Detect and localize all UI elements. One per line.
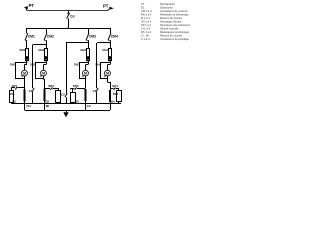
- svg-text:C2: C2: [87, 104, 91, 108]
- svg-text:M: M: [23, 71, 26, 75]
- svg-text:RS1: RS1: [9, 92, 15, 96]
- svg-text:CI - MI: CI - MI: [141, 34, 149, 38]
- svg-text:MI: MI: [46, 104, 49, 108]
- svg-text:SH4: SH4: [95, 63, 101, 67]
- svg-text:SI 1 à 4: SI 1 à 4: [141, 27, 150, 31]
- svg-text:RH3: RH3: [81, 48, 87, 52]
- svg-text:Pantographe: Pantographe: [160, 2, 175, 6]
- svg-text:SP2: SP2: [48, 84, 54, 88]
- svg-text:CI1: CI1: [26, 104, 31, 108]
- svg-text:Disjoncteur: Disjoncteur: [160, 6, 173, 10]
- svg-text:SH2: SH2: [30, 63, 36, 67]
- svg-text:SH 1 à 4: SH 1 à 4: [141, 20, 152, 24]
- svg-text:DJ: DJ: [70, 14, 74, 18]
- svg-text:SP 1 à 4: SP 1 à 4: [141, 23, 151, 27]
- svg-text:Shuntages d'induit: Shuntages d'induit: [160, 20, 182, 24]
- svg-text:RH1: RH1: [20, 48, 26, 52]
- svg-text:PT: PT: [141, 2, 145, 6]
- svg-text:RH 1 à 4: RH 1 à 4: [141, 13, 152, 17]
- svg-text:CM1: CM1: [28, 34, 35, 38]
- svg-text:RH2: RH2: [39, 48, 45, 52]
- svg-text:Contacteurs de couplage: Contacteurs de couplage: [160, 37, 189, 41]
- svg-text:RS 1 à 4: RS 1 à 4: [141, 30, 152, 34]
- svg-text:Moteurs de traction: Moteurs de traction: [160, 16, 183, 20]
- svg-text:CM4: CM4: [111, 34, 118, 38]
- svg-text:CM2: CM2: [47, 34, 54, 38]
- svg-text:RS4: RS4: [113, 92, 119, 96]
- svg-text:Résistances de shuntage: Résistances de shuntage: [160, 30, 190, 34]
- svg-text:SH1: SH1: [10, 63, 16, 67]
- svg-text:Rhéostats de démarrage: Rhéostats de démarrage: [160, 13, 189, 17]
- svg-text:C 1-2-3: C 1-2-3: [141, 37, 150, 41]
- svg-text:Retours de courant: Retours de courant: [160, 34, 182, 38]
- svg-text:CM 1 à 4: CM 1 à 4: [141, 9, 152, 13]
- svg-text:RH4: RH4: [103, 48, 109, 52]
- svg-text:M 1 à 4: M 1 à 4: [141, 16, 150, 20]
- svg-text:PT: PT: [29, 3, 35, 8]
- svg-text:PT: PT: [103, 3, 109, 8]
- svg-text:CM3: CM3: [89, 34, 96, 38]
- svg-text:C2: C2: [61, 93, 65, 97]
- svg-text:C1: C1: [29, 89, 33, 93]
- svg-text:M: M: [84, 71, 87, 75]
- svg-text:M: M: [106, 71, 109, 75]
- svg-text:M: M: [42, 71, 45, 75]
- svg-text:C3: C3: [93, 89, 97, 93]
- svg-text:Shunts inductifs: Shunts inductifs: [160, 27, 179, 31]
- svg-text:SH3: SH3: [74, 63, 80, 67]
- svg-text:Contacteurs de moteurs: Contacteurs de moteurs: [160, 9, 188, 13]
- svg-text:Shuntages des inducteurs: Shuntages des inducteurs: [160, 23, 191, 27]
